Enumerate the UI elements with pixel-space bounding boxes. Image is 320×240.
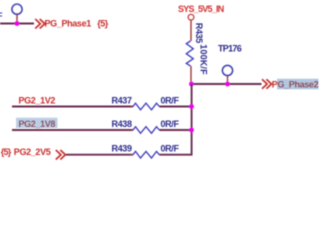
svg-text:SYS_5V5_IN: SYS_5V5_IN xyxy=(178,4,224,14)
junction dot R437/bus xyxy=(189,104,194,109)
svg-text:{5}: {5} xyxy=(97,18,109,28)
svg-text:R438: R438 xyxy=(112,119,132,129)
selection highlight behind PG2_1V8 xyxy=(16,118,58,128)
junction dot at R435 / bus xyxy=(189,82,194,87)
svg-text:PG_Phase1: PG_Phase1 xyxy=(45,18,92,28)
pin lead from R435 to wire xyxy=(190,66,192,84)
svg-text:0R/F: 0R/F xyxy=(161,144,180,154)
wire: PG2_1V2 rail xyxy=(12,106,133,108)
junction dot at TP176 xyxy=(225,82,230,87)
svg-text:0R/F: 0R/F xyxy=(161,119,180,129)
svg-text:100K/F: 100K/F xyxy=(198,44,208,75)
resistor R438 (horizontal zigzag) xyxy=(131,129,134,131)
svg-text:PG2_2V5: PG2_2V5 xyxy=(14,147,51,157)
testpoint circle (top-left, designator off-screen) xyxy=(12,4,22,14)
power symbol circle xyxy=(188,14,194,20)
off-page connector chevrons PG_Phase2 xyxy=(262,79,272,89)
wire: R438 to bus xyxy=(160,129,193,131)
selection highlight behind G_Phase2 xyxy=(277,79,319,90)
junction dot R438/bus xyxy=(189,128,194,133)
pin lead of TP176 xyxy=(227,76,229,84)
svg-text:{5}: {5} xyxy=(1,147,12,157)
testpoint TP176 circle xyxy=(223,66,233,76)
svg-text:R437: R437 xyxy=(112,95,132,105)
svg-text:0R/F: 0R/F xyxy=(161,95,180,105)
svg-text:R435: R435 xyxy=(194,23,204,43)
wire: R439 to bus corner xyxy=(160,154,193,156)
wire: main horizontal net to PG_Phase2 xyxy=(191,83,262,85)
off-page connector chevrons PG2_2V5 xyxy=(56,150,66,160)
resistor R439 (horizontal zigzag) xyxy=(131,154,134,156)
svg-text:R439: R439 xyxy=(112,144,132,154)
wire: vertical bus joining R437/R438/R439 xyxy=(191,84,193,155)
wire: PG2_2V5 rail xyxy=(66,154,133,156)
resistor R435 (vertical zigzag) xyxy=(186,41,193,66)
svg-text:PG2_1V2: PG2_1V2 xyxy=(19,95,56,105)
wire: R437 to bus xyxy=(160,106,193,108)
off-page connector chevrons PG_Phase1 xyxy=(35,19,45,29)
resistor R437 (horizontal zigzag) xyxy=(131,106,134,108)
pin lead from power symbol to R435 xyxy=(190,20,192,41)
junction dot at top-left testpoint xyxy=(15,21,20,26)
wire: PG2_1V8 rail xyxy=(12,129,133,131)
svg-text:G_Phase2: G_Phase2 xyxy=(278,79,319,89)
svg-text:TP176: TP176 xyxy=(218,44,242,54)
svg-text:PG2_1V8: PG2_1V8 xyxy=(19,119,56,129)
wire: top-left horizontal net into PG_Phase1 xyxy=(0,23,34,25)
pin lead of top-left testpoint xyxy=(16,14,18,23)
